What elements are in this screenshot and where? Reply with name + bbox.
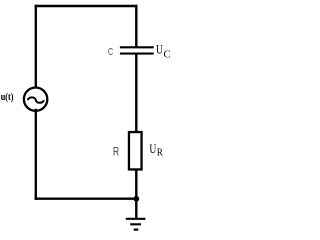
- wire capacitor to resistor: [135, 54, 137, 132]
- wire bottom: [36, 197, 137, 199]
- wire top: [36, 5, 137, 7]
- svg-text:U: U: [149, 142, 156, 156]
- wire junction to ground: [135, 199, 137, 218]
- wire right upper: [135, 6, 137, 47]
- wire left upper: [35, 6, 37, 89]
- svg-text:R: R: [157, 147, 164, 159]
- svg-text:C: C: [108, 47, 113, 58]
- voltage source U1: [24, 88, 47, 111]
- junction node: [133, 196, 139, 202]
- resistor R: [129, 132, 142, 169]
- wire left lower: [35, 110, 37, 199]
- label U_C: [156, 42, 171, 60]
- svg-text:C: C: [164, 48, 171, 60]
- svg-text:U: U: [156, 42, 163, 56]
- wire resistor to junction: [135, 170, 137, 199]
- capacitor C: [120, 47, 154, 53]
- svg-text:R: R: [113, 145, 120, 159]
- ground: [126, 219, 146, 230]
- svg-text:u(t): u(t): [1, 92, 14, 103]
- label U_R: [149, 142, 163, 159]
